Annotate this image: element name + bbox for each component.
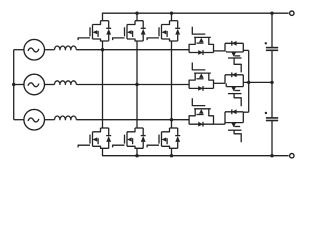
wire - pair B link	[214, 82, 226, 84]
transistor Q1a (phase A clamp)	[189, 27, 213, 55]
wire - S2 rail stub	[136, 13, 138, 21]
wire - bus to source vc	[14, 119, 25, 121]
node - cap branch bottom	[270, 154, 273, 157]
ac source Vb	[24, 74, 45, 95]
inductor Lc	[55, 116, 77, 120]
transistor Q2b (phase B clamp)	[225, 72, 249, 106]
wire - leg C vertical	[171, 41, 173, 128]
wire - cap branch middle	[271, 50, 273, 118]
node - collector junction	[247, 81, 250, 84]
wire - leg B vertical	[136, 41, 138, 128]
ac source Vc	[24, 109, 45, 130]
node - cap branch top	[270, 12, 273, 15]
node - positive output terminal	[290, 11, 294, 15]
node - bus junction	[12, 83, 15, 86]
wire - positive dc rail	[103, 13, 289, 21]
transistor S3 (phase C upper)	[147, 21, 180, 41]
wire - S3 rail stub	[171, 13, 173, 21]
wire - left input bus	[13, 50, 15, 120]
node - leg C / phase C	[170, 118, 173, 121]
transistor S6 (phase C lower)	[147, 128, 180, 148]
wire - cap branch lower	[271, 121, 273, 156]
node - top rail leg B	[135, 12, 138, 15]
wire - leg A vertical	[102, 41, 104, 128]
node - capacitor midpoint	[270, 81, 273, 84]
ac source Va	[24, 39, 45, 60]
wire - phase B line	[76, 84, 189, 86]
wire - Va to La	[44, 49, 54, 51]
transistor Q1b (phase A clamp)	[225, 41, 249, 73]
transistor S2 (phase B upper)	[113, 21, 146, 41]
node - top rail leg C	[170, 12, 173, 15]
wire - bus to source va	[14, 49, 25, 51]
capacitor C2	[266, 118, 278, 121]
capacitor C1	[266, 48, 278, 51]
wire - pair C link	[214, 123, 226, 125]
wire - midpoint bus	[249, 81, 272, 83]
wire - S6 rail stub	[171, 148, 173, 155]
wire - Vb to Lb	[44, 84, 54, 86]
node - C1 polarity mark	[265, 42, 267, 44]
wire - negative dc rail	[103, 148, 289, 155]
wire - phase C line	[76, 119, 189, 121]
wire - S5 rail stub	[136, 148, 138, 155]
wire - phase A line	[76, 49, 189, 51]
wire - cap branch upper	[271, 13, 273, 47]
transistor S1 (phase A upper)	[78, 21, 111, 41]
wire - Vc to Lc	[44, 119, 54, 121]
node - C2 polarity mark	[265, 112, 267, 114]
node - leg B / phase B	[135, 83, 138, 86]
inductor Lb	[55, 81, 77, 85]
node - negative output terminal	[290, 154, 294, 158]
node - leg A / phase A	[101, 48, 104, 51]
wire - bus to source vb	[14, 84, 25, 86]
inductor La	[55, 46, 77, 50]
transistor Q3b (phase C clamp)	[225, 109, 249, 142]
transistor S5 (phase B lower)	[113, 128, 146, 148]
wire - midpoint collector vertical	[248, 50, 250, 112]
node - bottom rail leg C	[170, 154, 173, 157]
transistor Q3a (phase C clamp)	[189, 98, 213, 126]
transistor Q2a (phase B clamp)	[189, 63, 213, 91]
transistor S4 (phase A lower)	[78, 128, 111, 148]
wire - pair A link	[214, 50, 226, 52]
node - bottom rail leg B	[135, 154, 138, 157]
